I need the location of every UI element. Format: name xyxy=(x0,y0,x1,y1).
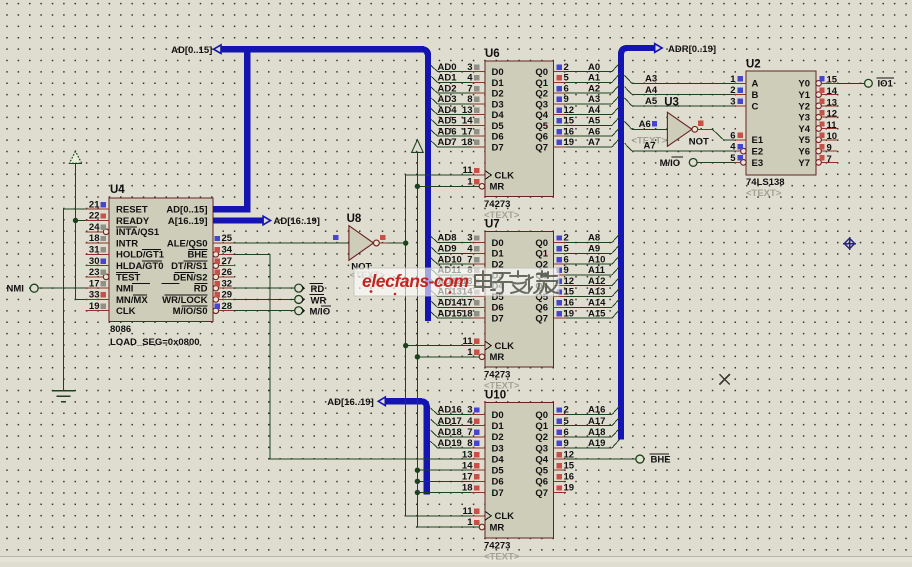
svg-text:HLDA/GT0: HLDA/GT0 xyxy=(116,261,164,272)
svg-text:A: A xyxy=(752,79,759,90)
svg-text:D1: D1 xyxy=(492,249,505,260)
U10 clock symbol xyxy=(485,511,491,520)
U6 pin 15 Q5 wire A5 xyxy=(554,124,567,126)
svg-text:AD16: AD16 xyxy=(438,405,462,416)
svg-text:Q1: Q1 xyxy=(535,249,548,260)
svg-text:8: 8 xyxy=(467,94,472,105)
svg-text:74LS138: 74LS138 xyxy=(746,177,785,188)
svg-text:AD[16..19]: AD[16..19] xyxy=(327,397,373,408)
U6 pin 16 Q6 wire A6 xyxy=(554,135,567,137)
svg-text:DEN/S2: DEN/S2 xyxy=(173,272,207,283)
U10 pin 8 D3 wire AD19 xyxy=(471,447,485,449)
svg-text:AD[0..15]: AD[0..15] xyxy=(166,205,207,216)
gate U8 NOT xyxy=(349,226,374,261)
U7 pin 9 Q3 wire A11 xyxy=(554,274,567,276)
wire M/IO terminal to U2 E3 xyxy=(697,161,734,163)
U7 pin 2 Q0 wire A8 xyxy=(554,242,567,244)
svg-text:22: 22 xyxy=(89,211,100,222)
terminal RD xyxy=(295,284,303,292)
svg-text:A2: A2 xyxy=(588,83,600,94)
U4 pin 22 READY xyxy=(86,219,110,221)
svg-text:WR/LOCK: WR/LOCK xyxy=(162,295,208,306)
svg-text:INTA/QS1: INTA/QS1 xyxy=(116,227,160,238)
svg-text:AD18: AD18 xyxy=(438,427,462,438)
svg-text:Y0: Y0 xyxy=(798,79,810,90)
svg-text:Q7: Q7 xyxy=(535,142,548,153)
svg-text:Q0: Q0 xyxy=(535,410,548,421)
U10 pin 2 Q0 wire A16 xyxy=(554,414,567,416)
U10 pin 6 Q2 wire A18 xyxy=(554,436,567,438)
svg-text:MR: MR xyxy=(490,522,505,533)
U2 pin 13 Y2 xyxy=(816,103,822,109)
wire U4 BHE to U10 D4 xyxy=(234,254,472,459)
svg-text:D1: D1 xyxy=(492,78,505,89)
U4 pin 17 NMI xyxy=(86,287,110,289)
svg-text:CLK: CLK xyxy=(495,341,515,352)
U2 pin 1 wire A3 xyxy=(735,82,747,84)
wire power to READY and MN/MX xyxy=(76,163,86,299)
U4 pin 31 HOLD/GT1 xyxy=(86,253,110,255)
U4 pin 19 CLK xyxy=(86,310,110,312)
junction READY/power xyxy=(73,218,78,223)
bus stub U4 AD[0..15] pin xyxy=(213,206,250,212)
U7 pin 5 Q1 wire A9 xyxy=(554,252,567,254)
svg-text:D4: D4 xyxy=(492,110,505,121)
U10 MR bubble xyxy=(479,524,485,530)
svg-text:AD[16..19]: AD[16..19] xyxy=(274,216,320,227)
power terminal MR net xyxy=(412,140,424,153)
svg-text:27: 27 xyxy=(222,256,233,267)
U6 pin 11 CLK xyxy=(471,174,485,176)
U10 pin 4 D1 wire AD17 xyxy=(471,425,485,427)
svg-text:CLK: CLK xyxy=(116,306,136,317)
svg-text:<TEXT>: <TEXT> xyxy=(746,188,782,199)
svg-text:Q7: Q7 xyxy=(535,314,548,325)
svg-text:A7: A7 xyxy=(588,137,600,148)
svg-text:7: 7 xyxy=(827,154,832,165)
U8 input square xyxy=(333,235,338,240)
U7 pin 16 Q6 wire A14 xyxy=(554,306,567,308)
bus arrow AD[16..19] bottom xyxy=(378,397,385,406)
wire bus tap A6 to U3 input xyxy=(625,121,632,129)
svg-text:A8: A8 xyxy=(588,233,600,244)
wire CLK net vertical xyxy=(406,175,471,516)
wire MR branch U7 xyxy=(417,356,479,358)
U4 pin 33 MN/MX xyxy=(86,298,110,300)
junction MR U7 xyxy=(415,354,420,359)
U6 pin 7 D2 wire AD2 xyxy=(471,92,485,94)
bus ADR[0..19] right vertical xyxy=(621,48,655,440)
junction U10 D7 xyxy=(415,490,420,495)
terminal NMI xyxy=(30,284,38,292)
svg-text:Q6: Q6 xyxy=(535,477,548,488)
U2 pin 11 Y4 xyxy=(816,126,822,132)
svg-text:Y3: Y3 xyxy=(798,113,810,124)
svg-text:A16: A16 xyxy=(588,405,605,416)
svg-text:A7: A7 xyxy=(644,141,656,152)
U2 pin 2 wire A4 xyxy=(735,94,747,96)
svg-text:28: 28 xyxy=(222,301,233,312)
U10 pin 7 D2 wire AD18 xyxy=(471,436,485,438)
svg-text:Y2: Y2 xyxy=(798,101,810,112)
wire U4 WR to terminal xyxy=(234,298,295,300)
U4 pin 28 xyxy=(213,308,219,314)
svg-text:D7: D7 xyxy=(492,142,504,153)
svg-text:17: 17 xyxy=(462,298,473,309)
U7 pin 7 D2 wire AD10 xyxy=(471,263,485,265)
wire MR branch U10 D6 xyxy=(417,480,471,482)
svg-text:12: 12 xyxy=(827,109,838,120)
U7 pin 19 Q7 wire A15 xyxy=(554,317,567,319)
terminal IO1 xyxy=(865,79,873,87)
svg-text:Q6: Q6 xyxy=(535,303,548,314)
bus arrow ADR[0..19] xyxy=(655,44,662,53)
svg-text:IO1: IO1 xyxy=(878,79,894,90)
svg-text:Q3: Q3 xyxy=(535,443,548,454)
svg-text:AD2: AD2 xyxy=(438,83,457,94)
svg-text:7: 7 xyxy=(467,83,472,94)
svg-text:BHE: BHE xyxy=(651,455,671,466)
svg-text:NMI: NMI xyxy=(116,284,133,295)
bus AD[0..15] top horizontal and left vertical xyxy=(221,49,428,321)
wire U2 Y0 to IO1 terminal xyxy=(837,82,864,84)
U7 clock symbol xyxy=(485,341,491,350)
svg-text:Y6: Y6 xyxy=(798,147,810,158)
svg-text:A3: A3 xyxy=(588,94,600,105)
svg-text:A5: A5 xyxy=(588,116,601,127)
svg-text:4: 4 xyxy=(467,416,473,427)
svg-text:elecfans: elecfans xyxy=(362,271,430,291)
U2 pin 12 Y3 xyxy=(816,114,822,120)
svg-text:Q1: Q1 xyxy=(535,78,548,89)
svg-text:C: C xyxy=(752,101,759,112)
svg-text:4: 4 xyxy=(467,244,473,255)
svg-text:8: 8 xyxy=(467,438,472,449)
svg-text:AD1: AD1 xyxy=(438,73,458,84)
svg-text:A11: A11 xyxy=(588,265,606,276)
svg-text:A4: A4 xyxy=(588,105,601,116)
svg-text:A[16..19]: A[16..19] xyxy=(168,216,208,227)
wire U10 Q4 to BHE terminal xyxy=(566,458,636,460)
svg-text:D6: D6 xyxy=(492,303,504,314)
svg-text:21: 21 xyxy=(89,199,100,210)
svg-text:AD[0..15]: AD[0..15] xyxy=(171,45,212,56)
svg-text:13: 13 xyxy=(827,97,838,108)
svg-text:NMI: NMI xyxy=(7,283,24,294)
svg-text:E2: E2 xyxy=(752,147,764,158)
U10 pin 17 D6 xyxy=(471,480,485,482)
svg-text:LOAD_SEG=0x0800: LOAD_SEG=0x0800 xyxy=(110,337,200,348)
svg-text:Y5: Y5 xyxy=(798,135,810,146)
U2 pin 7 Y7 xyxy=(816,160,822,166)
svg-text:Q3: Q3 xyxy=(535,99,548,110)
svg-text:D3: D3 xyxy=(492,443,504,454)
svg-text:A5: A5 xyxy=(645,96,658,107)
svg-text:Q6: Q6 xyxy=(535,132,548,143)
svg-text:D6: D6 xyxy=(492,477,504,488)
svg-text:D3: D3 xyxy=(492,99,504,110)
svg-text:3: 3 xyxy=(467,405,472,416)
U3 input square xyxy=(652,121,657,126)
svg-text:3: 3 xyxy=(467,62,472,73)
U10 pin 19 Q7 xyxy=(554,491,567,493)
svg-text:18: 18 xyxy=(462,137,473,148)
U6 pin 18 D7 wire AD7 xyxy=(471,146,485,148)
svg-text:Q5: Q5 xyxy=(535,466,548,477)
svg-text:A13: A13 xyxy=(588,287,605,298)
svg-text:A4: A4 xyxy=(645,85,658,96)
U10 pin 1 MR xyxy=(471,526,479,528)
svg-text:Q4: Q4 xyxy=(535,110,548,121)
svg-text:AD6: AD6 xyxy=(438,126,457,137)
U6 pin 9 Q3 wire A3 xyxy=(554,103,567,105)
svg-text:A6: A6 xyxy=(639,119,651,130)
svg-text:D0: D0 xyxy=(492,238,504,249)
svg-text:A10: A10 xyxy=(588,254,605,265)
svg-text:Y7: Y7 xyxy=(798,158,810,169)
svg-text:19: 19 xyxy=(89,301,100,312)
svg-text:AD17: AD17 xyxy=(438,416,462,427)
svg-text:U7: U7 xyxy=(485,219,500,231)
svg-text:8086: 8086 xyxy=(110,324,131,335)
U4 pin 34 xyxy=(213,252,219,258)
U4 pin 32 xyxy=(213,285,219,291)
svg-text:Q2: Q2 xyxy=(535,89,548,100)
svg-text:<TEXT>: <TEXT> xyxy=(484,552,520,563)
svg-text:3: 3 xyxy=(467,233,472,244)
U6 pin 1 MR xyxy=(471,185,479,187)
wire RESET to ground xyxy=(63,209,85,390)
svg-text:D6: D6 xyxy=(492,132,504,143)
U2 pin 10 Y5 xyxy=(816,137,822,143)
svg-text:A18: A18 xyxy=(588,427,605,438)
U4 pin 23 TEST xyxy=(86,276,104,278)
svg-text:A17: A17 xyxy=(588,416,605,427)
junction U10 D6 xyxy=(415,479,420,484)
svg-text:AD3: AD3 xyxy=(438,94,457,105)
svg-text:16: 16 xyxy=(564,472,575,483)
svg-text:AD4: AD4 xyxy=(438,105,458,116)
svg-text:13: 13 xyxy=(462,105,473,116)
svg-text:9: 9 xyxy=(827,143,832,154)
U7 pin 13 D4 wire AD12 xyxy=(471,285,485,287)
U8 bubble xyxy=(374,240,380,246)
terminal M/IO at U2 xyxy=(689,159,697,167)
junction CLK U7 xyxy=(403,343,408,348)
U10 pin 15 Q5 xyxy=(554,469,567,471)
svg-text:AD7: AD7 xyxy=(438,137,457,148)
U6 pin 2 Q0 wire A0 xyxy=(554,71,567,73)
bus stub U4 A[16..19] pin xyxy=(213,217,263,223)
U7 pin 14 D5 wire AD13 xyxy=(471,296,485,298)
svg-text:MR: MR xyxy=(490,182,505,193)
svg-text:7: 7 xyxy=(467,427,472,438)
terminal WR xyxy=(295,295,303,303)
svg-text:U10: U10 xyxy=(485,390,506,402)
chip U2 74LS138 body xyxy=(746,71,816,175)
svg-text:RESET: RESET xyxy=(116,205,148,216)
svg-text:29: 29 xyxy=(222,290,233,301)
svg-text:15: 15 xyxy=(827,75,838,86)
U7 pin 12 Q4 wire A12 xyxy=(554,285,567,287)
svg-text:U2: U2 xyxy=(746,59,761,71)
svg-text:34: 34 xyxy=(222,245,233,256)
U10 pin 14 D5 xyxy=(471,469,485,471)
svg-text:MN/MX: MN/MX xyxy=(116,295,148,306)
wire U4 ALE to U8 input xyxy=(234,242,349,244)
bus branch down to U4 AD[0..15] xyxy=(244,49,250,209)
watermark chinese characters xyxy=(475,271,558,293)
svg-text:B: B xyxy=(752,90,759,101)
U7 pin 17 D6 wire AD14 xyxy=(471,306,485,308)
svg-text:Q5: Q5 xyxy=(535,121,548,132)
U4 pin 21 RESET xyxy=(86,208,110,210)
svg-text:24: 24 xyxy=(89,222,100,233)
U6 pin 17 D6 wire AD6 xyxy=(471,135,485,137)
no-ERC blue marker xyxy=(843,243,856,245)
svg-text:A15: A15 xyxy=(588,308,606,319)
wire NMI to U4 pin 17 xyxy=(38,287,85,289)
U2 pin 3 wire A5 xyxy=(735,105,747,107)
U2 pin 6 E1 xyxy=(735,139,747,141)
svg-text:INTR: INTR xyxy=(116,238,138,249)
svg-text:15: 15 xyxy=(564,460,575,471)
U4 pin 30 HLDA/GT0 xyxy=(86,265,110,267)
svg-text:A3: A3 xyxy=(645,74,657,85)
svg-text:U3: U3 xyxy=(664,97,679,109)
U4 pin 25 xyxy=(213,242,234,244)
U4 pin 26 xyxy=(213,274,219,280)
bus arrow AD[0..15] xyxy=(214,45,221,54)
svg-text:M/IO: M/IO xyxy=(310,307,331,318)
U10 pin 12 Q4 xyxy=(554,458,567,460)
svg-text:Y1: Y1 xyxy=(798,90,810,101)
U7 pin 18 D7 wire AD15 xyxy=(471,317,485,319)
svg-text:HOLD/GT1: HOLD/GT1 xyxy=(116,250,165,261)
watermark band xyxy=(354,268,559,296)
wire MR branch U10 D5 xyxy=(417,469,471,471)
svg-text:74273: 74273 xyxy=(484,369,510,380)
U6 pin 14 D5 wire AD5 xyxy=(471,124,485,126)
svg-text:A12: A12 xyxy=(588,276,605,287)
U6 pin 12 Q4 wire A4 xyxy=(554,114,567,116)
U8 output square xyxy=(380,235,385,240)
U10 pin 9 Q3 wire A19 xyxy=(554,447,567,449)
U4 pin 27 xyxy=(213,263,219,269)
svg-text:18: 18 xyxy=(462,308,473,319)
U7 MR bubble xyxy=(479,354,485,360)
svg-text:74273: 74273 xyxy=(484,540,510,551)
wire U4 RD to terminal xyxy=(234,287,295,289)
terminal BHE xyxy=(636,455,644,463)
gate U3 NOT xyxy=(667,112,692,146)
svg-text:A0: A0 xyxy=(588,62,600,73)
svg-text:18: 18 xyxy=(89,233,100,244)
svg-text:Q7: Q7 xyxy=(535,488,548,499)
svg-text:Q4: Q4 xyxy=(535,454,548,465)
U6 pin 5 Q1 wire A1 xyxy=(554,81,567,83)
U2 pin 14 Y1 xyxy=(816,92,822,98)
U4 pin 24 INTA/QS1 xyxy=(86,231,104,233)
wire U3 output to U2 E1 xyxy=(698,128,713,130)
junction MR U6 xyxy=(415,184,420,189)
svg-text:17: 17 xyxy=(462,126,473,137)
U7 pin 8 D3 wire AD11 xyxy=(471,274,485,276)
U10 pin 11 CLK xyxy=(471,515,485,517)
svg-text:AD0: AD0 xyxy=(438,62,457,73)
svg-text:Y4: Y4 xyxy=(798,124,810,135)
svg-text:AD9: AD9 xyxy=(438,244,457,255)
chip U7 74273 body xyxy=(485,232,554,368)
U6 pin 6 Q2 wire A2 xyxy=(554,92,567,94)
svg-text:A9: A9 xyxy=(588,244,600,255)
wire bus tap A7 to U2 E2 xyxy=(625,143,632,151)
svg-text:DT/R/S1: DT/R/S1 xyxy=(171,261,208,272)
U2 pin 5 E3 xyxy=(741,160,747,166)
svg-text:74273: 74273 xyxy=(484,199,510,210)
svg-text:M/IO: M/IO xyxy=(660,158,681,169)
svg-text:RD: RD xyxy=(311,284,325,295)
svg-text:25: 25 xyxy=(222,233,233,244)
svg-text:D2: D2 xyxy=(492,432,504,443)
svg-text:RD: RD xyxy=(194,284,208,295)
U3 bubble xyxy=(692,126,698,132)
svg-text:U4: U4 xyxy=(110,184,125,196)
terminal M/IO xyxy=(295,307,303,315)
origin X marker xyxy=(719,374,729,384)
wire U8 output to CLK net xyxy=(379,242,405,244)
wire MR branch U6 xyxy=(417,185,479,187)
svg-text:E3: E3 xyxy=(752,158,764,169)
svg-text:M/IO/S0: M/IO/S0 xyxy=(173,306,208,317)
U4 pin 29 xyxy=(213,297,219,303)
bus AD[16..19] bottom to U10 xyxy=(385,401,427,494)
svg-text:11: 11 xyxy=(827,120,838,131)
U6 clock symbol xyxy=(485,171,491,180)
svg-text:AD14: AD14 xyxy=(438,298,463,309)
svg-text:AD5: AD5 xyxy=(438,116,458,127)
svg-text:31: 31 xyxy=(89,245,100,256)
svg-text:NOT: NOT xyxy=(689,136,709,147)
svg-text:D7: D7 xyxy=(492,314,504,325)
junction U10 D5 xyxy=(415,468,420,473)
svg-text:17: 17 xyxy=(89,278,100,289)
svg-text:32: 32 xyxy=(222,278,233,289)
svg-text:READY: READY xyxy=(116,216,150,227)
svg-text:ADR[0..19]: ADR[0..19] xyxy=(668,44,716,55)
svg-text:D5: D5 xyxy=(492,121,505,132)
svg-text:CLK: CLK xyxy=(495,511,515,522)
svg-text:D0: D0 xyxy=(492,410,504,421)
wire MR branch U10 D7 xyxy=(417,491,471,493)
U6 pin 13 D4 wire AD4 xyxy=(471,114,485,116)
U4 pin 18 INTR xyxy=(86,242,110,244)
chip U10 74273 body xyxy=(485,403,554,539)
U10 pin 5 Q1 wire A17 xyxy=(554,425,567,427)
window bottom edge xyxy=(0,556,912,558)
svg-text:E1: E1 xyxy=(752,135,764,146)
svg-text:30: 30 xyxy=(89,256,100,267)
svg-text:ALE/QS0: ALE/QS0 xyxy=(167,238,208,249)
svg-text:AD15: AD15 xyxy=(438,308,463,319)
U6 pin 4 D1 wire AD1 xyxy=(471,81,485,83)
U10 pin 13 D4 xyxy=(471,458,485,460)
U10 pin 16 Q6 xyxy=(554,480,567,482)
svg-text:19: 19 xyxy=(564,483,575,494)
svg-text:33: 33 xyxy=(89,290,100,301)
svg-text:TEST: TEST xyxy=(116,272,140,283)
svg-text:BHE: BHE xyxy=(187,250,207,261)
